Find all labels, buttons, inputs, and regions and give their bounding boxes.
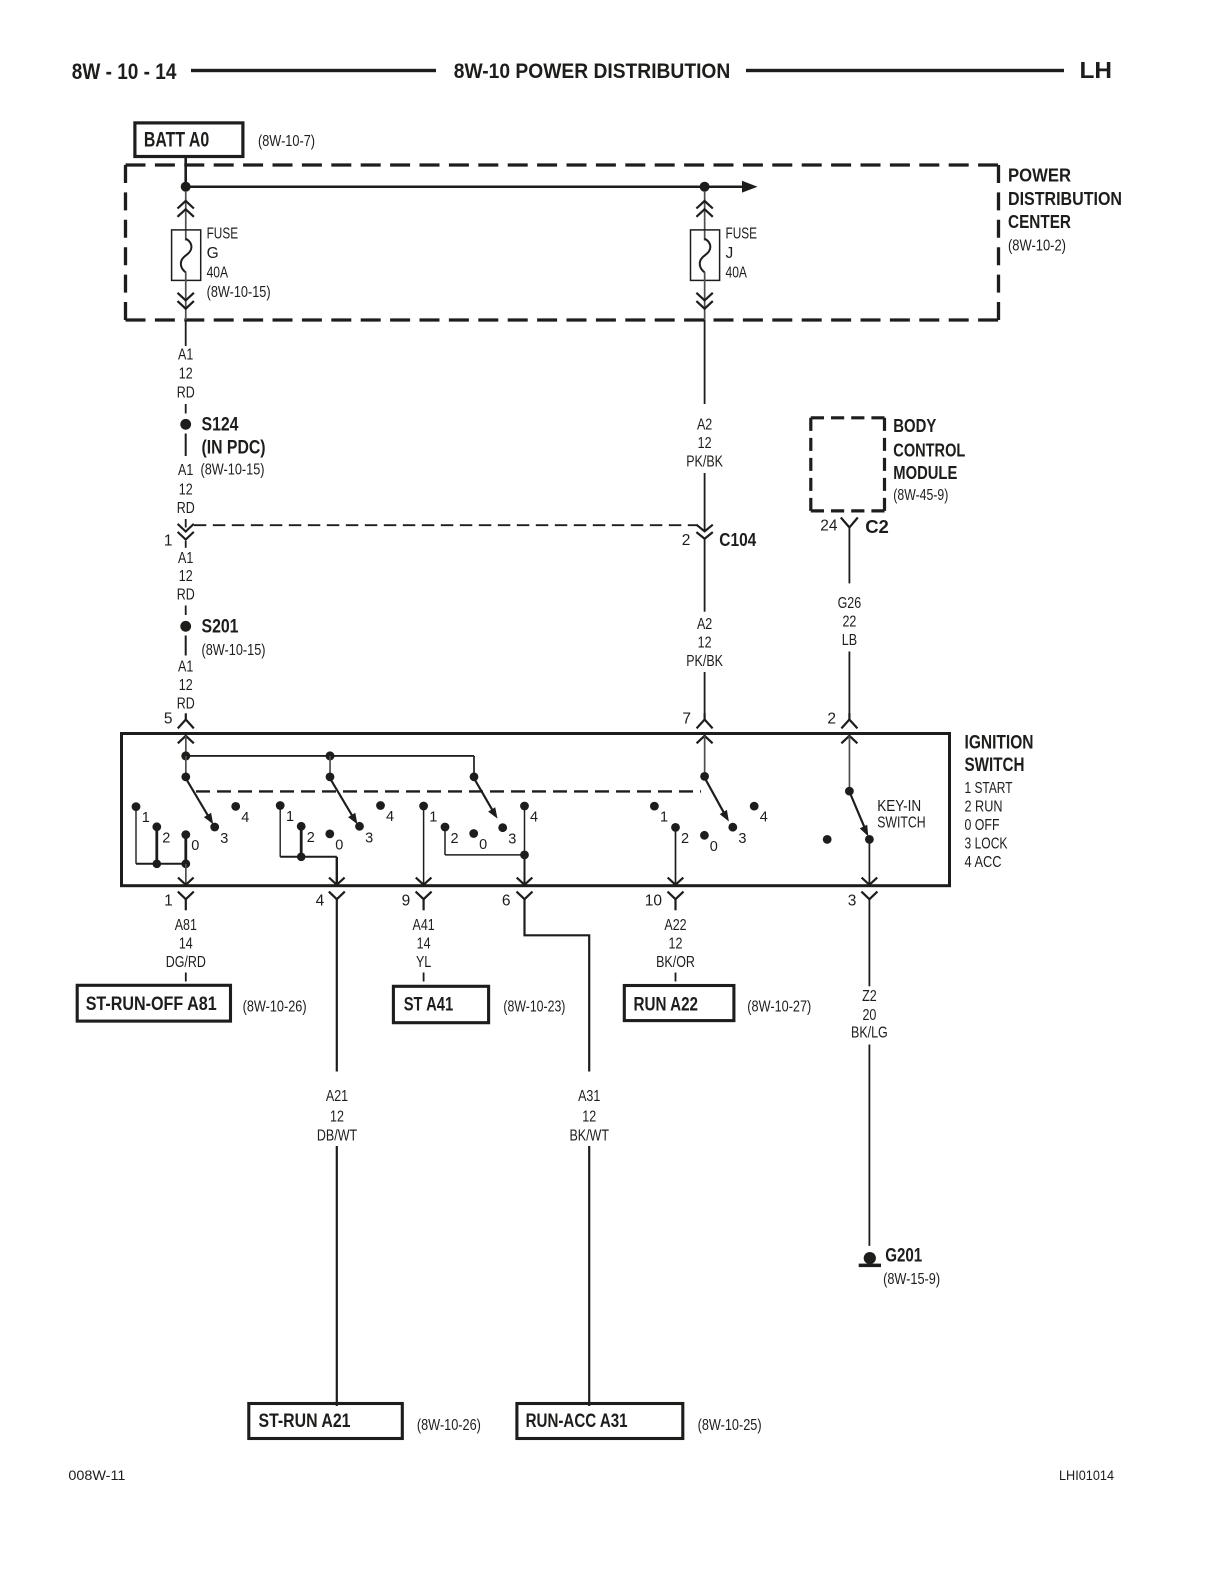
svg-text:BK/WT: BK/WT (569, 1127, 609, 1144)
svg-text:3: 3 (220, 831, 228, 847)
svg-text:J: J (726, 245, 734, 262)
svg-text:12: 12 (669, 935, 683, 952)
wire feed branch to wafer 3 (473, 756, 475, 777)
svg-text:A1: A1 (178, 462, 193, 479)
svg-text:CENTER: CENTER (1008, 211, 1071, 232)
svg-text:G26: G26 (838, 595, 862, 612)
wire Z2 upper (868, 899, 870, 986)
svg-text:(8W-10-2): (8W-10-2) (1008, 238, 1066, 255)
wire A31 lower (588, 1146, 590, 1406)
svg-text:2: 2 (682, 532, 691, 549)
svg-text:A1: A1 (178, 550, 193, 567)
arrowhead at pin 9 inside box (416, 878, 432, 885)
svg-text:1: 1 (286, 809, 294, 825)
arrowhead at pin 1 inside box (178, 878, 194, 885)
svg-text:2: 2 (451, 831, 459, 847)
wire A2 below C104 (704, 539, 706, 612)
svg-text:DB/WT: DB/WT (317, 1127, 357, 1144)
svg-text:12: 12 (330, 1109, 344, 1126)
connector pin 4 exit symbol (329, 892, 345, 900)
wire A2 below PDC (704, 320, 706, 404)
wire bus inside PDC (186, 186, 743, 189)
wire A21 lower (336, 1146, 338, 1406)
wiper arm wafer 1 (187, 780, 213, 824)
svg-text:2 RUN: 2 RUN (965, 799, 1003, 816)
svg-text:4: 4 (241, 810, 249, 826)
wire A21 upper (336, 899, 338, 1071)
wire stub below C104 pin 1 (185, 541, 187, 548)
svg-text:12: 12 (698, 634, 712, 651)
label wire G26 22 LB (838, 595, 862, 649)
wire contact 1 stem to pin 9 (423, 806, 425, 885)
connector chevrons below fuse J (696, 293, 712, 309)
label wire A21 12 DB/WT (317, 1088, 357, 1144)
svg-text:A21: A21 (326, 1088, 348, 1105)
wire dash above S124 (185, 404, 187, 414)
svg-text:LHI01014: LHI01014 (1059, 1467, 1114, 1483)
label IGNITION SWITCH legend (965, 732, 1034, 872)
svg-text:FUSE: FUSE (207, 225, 239, 242)
contact 1 wafer 1 (132, 802, 141, 811)
label wire A1 12 RD (second) (177, 462, 195, 517)
node ST-RUN-OFF A81 box (77, 985, 230, 1021)
svg-text:1: 1 (164, 893, 173, 910)
connector chevron inside box pin 7 (697, 736, 713, 744)
node ST A41 box (393, 986, 488, 1022)
wire dash above ST-RUN-OFF box (185, 973, 187, 982)
svg-text:0: 0 (191, 838, 199, 854)
svg-text:2: 2 (162, 831, 170, 847)
connector C104 pin 2 chevrons (696, 525, 712, 539)
wire BATT A0 to PDC (184, 156, 187, 187)
label wire A41 14 YL (413, 917, 435, 971)
svg-text:12: 12 (179, 677, 193, 694)
connector pin 9 exit symbol (416, 892, 432, 911)
svg-text:ST-RUN A21: ST-RUN A21 (259, 1410, 351, 1432)
svg-text:POWER: POWER (1008, 165, 1071, 186)
svg-text:C2: C2 (865, 516, 889, 537)
svg-text:SWITCH: SWITCH (965, 754, 1025, 776)
svg-text:4: 4 (316, 893, 325, 910)
ignition switch box (122, 734, 950, 886)
connector chevrons above fuse J (696, 201, 712, 217)
svg-text:BODY: BODY (893, 415, 937, 436)
svg-text:CONTROL: CONTROL (893, 439, 965, 460)
splice S124 (180, 419, 191, 430)
wiper pivot dot wafer 3 (470, 772, 479, 781)
svg-text:4: 4 (530, 809, 538, 825)
contact 0 wafer 2 (325, 830, 334, 839)
svg-text:RUN-ACC A31: RUN-ACC A31 (526, 1410, 628, 1432)
svg-text:24: 24 (820, 518, 838, 535)
contact 4 wafer 3 (520, 802, 529, 811)
svg-text:4: 4 (386, 809, 394, 825)
contact right key-in switch (865, 835, 874, 844)
connector C104 pin 1 chevrons (178, 524, 194, 540)
contact 2 wafer 3 (441, 823, 450, 832)
ground G201 symbol (859, 1252, 881, 1267)
svg-text:RD: RD (177, 695, 195, 712)
contact left key-in switch (823, 835, 832, 844)
contact 1 wafer 4 (650, 802, 659, 811)
wire output to pin 6 (524, 855, 526, 885)
contact 1 wafer 3 (419, 802, 428, 811)
svg-text:S201: S201 (202, 616, 239, 638)
svg-text:3: 3 (848, 893, 857, 910)
wire stub above C104 pin 1 (185, 519, 187, 528)
svg-text:A31: A31 (578, 1088, 600, 1105)
svg-text:2: 2 (307, 830, 315, 846)
wire contact 2 stem wafer 1 (155, 827, 158, 864)
wire output to pin 1 (185, 864, 187, 885)
svg-text:BK/OR: BK/OR (656, 954, 695, 971)
svg-text:40A: 40A (726, 264, 748, 281)
arrowhead at pin 4 inside box (329, 878, 345, 885)
connector C104 dashed line (194, 524, 697, 526)
svg-text:(8W-10-26): (8W-10-26) (243, 999, 307, 1016)
wire output link wafer 1 (136, 863, 186, 865)
svg-text:1: 1 (142, 810, 150, 826)
wire contact 2 stem wafer 2 (300, 826, 303, 857)
contact 3 wafer 4 (728, 823, 737, 832)
junction dot at fuse G (181, 182, 191, 192)
contact 4 wafer 1 (231, 802, 240, 811)
label wire A1 12 RD (third) (177, 550, 195, 604)
connector C2 symbol (841, 518, 858, 528)
svg-text:G201: G201 (885, 1244, 922, 1266)
wire A31 jog (525, 899, 590, 1071)
arrow bus continuation (742, 181, 758, 193)
svg-text:10: 10 (645, 893, 663, 910)
svg-text:A2: A2 (697, 616, 712, 633)
svg-text:2: 2 (827, 711, 836, 728)
svg-text:(8W-10-27): (8W-10-27) (747, 999, 811, 1016)
label wire A1 12 RD (first) (177, 347, 195, 402)
contact 3 wafer 1 (210, 823, 219, 832)
wire output to pin 4 (336, 857, 338, 885)
contact 1 wafer 2 (276, 801, 285, 810)
svg-text:8W - 10 - 14: 8W - 10 - 14 (72, 59, 177, 84)
junction dot contact 2 link wafer 1 (153, 860, 162, 869)
connector pin 10 exit symbol (668, 892, 684, 911)
svg-text:LH: LH (1080, 57, 1113, 83)
svg-text:(8W-15-9): (8W-15-9) (883, 1271, 940, 1288)
svg-text:C104: C104 (719, 529, 757, 550)
svg-text:2: 2 (681, 831, 689, 847)
wire pin 5 entry to feed node (185, 736, 187, 756)
wire pin 2 entry to key-in pivot (849, 736, 851, 791)
svg-text:(8W-10-25): (8W-10-25) (698, 1417, 762, 1434)
wire fuse G column upper (185, 191, 187, 241)
svg-text:3 LOCK: 3 LOCK (965, 836, 1009, 853)
contact 4 wafer 2 (376, 801, 385, 810)
label wire A81 14 DG/RD (166, 917, 206, 971)
svg-text:1: 1 (164, 533, 173, 550)
wire A2 to ignition switch (704, 672, 706, 714)
wire below S201 (185, 636, 187, 656)
svg-text:(8W-10-7): (8W-10-7) (258, 133, 315, 150)
svg-text:BK/LG: BK/LG (851, 1025, 888, 1042)
svg-text:(8W-10-15): (8W-10-15) (207, 284, 271, 301)
svg-text:G: G (207, 245, 219, 262)
contact 0 wafer 1 (181, 830, 190, 839)
svg-text:PK/BK: PK/BK (686, 653, 723, 670)
label FUSE G 40A (207, 225, 271, 300)
svg-text:1: 1 (429, 809, 437, 825)
wire below S124 (185, 434, 187, 457)
svg-text:A1: A1 (178, 347, 193, 364)
svg-text:3: 3 (738, 831, 746, 847)
svg-text:S124: S124 (202, 414, 239, 436)
junction dot at fuse J (700, 182, 710, 192)
body control module dashed box (811, 418, 885, 511)
svg-text:RD: RD (177, 586, 195, 603)
svg-text:0: 0 (710, 839, 718, 855)
svg-text:DG/RD: DG/RD (166, 954, 206, 971)
svg-text:ST A41: ST A41 (404, 993, 454, 1015)
label wire A31 12 BK/WT (569, 1088, 609, 1144)
junction dot contact 2 link wafer 2 (297, 853, 306, 862)
svg-text:3: 3 (508, 832, 516, 848)
svg-text:4: 4 (760, 809, 768, 825)
junction dot feed wafer 1 (181, 751, 190, 760)
power distribution center dashed box (126, 165, 999, 320)
wiper arm wafer 3 (475, 780, 498, 819)
connector chevrons below fuse G (178, 293, 194, 309)
svg-text:FUSE: FUSE (726, 225, 758, 242)
svg-text:0: 0 (479, 837, 487, 853)
wire output link wafer 2 (280, 856, 337, 858)
svg-text:20: 20 (862, 1007, 876, 1024)
contact 3 wafer 3 (498, 823, 507, 832)
contact 2 wafer 1 (152, 822, 161, 831)
wire contact 0 stem wafer 1 (184, 835, 187, 864)
contact 2 wafer 4 (671, 823, 680, 832)
wiper arm key-in switch (850, 794, 868, 836)
svg-text:1: 1 (660, 809, 668, 825)
svg-text:PK/BK: PK/BK (686, 454, 723, 471)
contact 3 wafer 2 (355, 822, 364, 831)
svg-text:008W-11: 008W-11 (68, 1467, 125, 1483)
node BATT A0 box (135, 123, 243, 157)
label wire A1 12 RD (fourth) (177, 658, 195, 712)
svg-text:(8W-45-9): (8W-45-9) (893, 487, 948, 504)
fuse J (691, 230, 720, 281)
svg-text:14: 14 (417, 935, 431, 952)
svg-text:(8W-10-26): (8W-10-26) (417, 1417, 481, 1434)
svg-text:9: 9 (402, 893, 411, 910)
wire contact 2 stem wafer 3 (444, 827, 446, 855)
svg-text:0 OFF: 0 OFF (965, 817, 1000, 834)
wiper pivot dot wafer 2 (326, 773, 335, 782)
connector pin 1 exit symbol (178, 892, 194, 911)
wire contact 4 stem wafer 3 (524, 806, 526, 855)
wire contact 1 stem wafer 1 (135, 807, 137, 864)
label BODY CONTROL MODULE (893, 415, 965, 504)
splice S201 (180, 621, 191, 632)
svg-text:5: 5 (164, 711, 173, 728)
wire A2 above C104 (704, 473, 706, 530)
label KEY-IN SWITCH (877, 798, 926, 832)
wiper pivot dot wafer 4 (700, 772, 709, 781)
node RUN A22 box (624, 986, 734, 1021)
wire G26 to ignition switch (849, 652, 851, 714)
svg-text:RD: RD (177, 385, 195, 402)
wire pin 7 entry to wafer 4 pivot (704, 736, 706, 777)
svg-text:8W-10 POWER DISTRIBUTION: 8W-10 POWER DISTRIBUTION (454, 59, 731, 83)
contact 4 wafer 4 (750, 802, 759, 811)
svg-text:RD: RD (177, 500, 195, 517)
arrowhead at pin 6 inside box (517, 878, 533, 885)
svg-text:A22: A22 (664, 917, 686, 934)
svg-text:A1: A1 (178, 658, 193, 675)
wiper pivot dot wafer 1 (181, 773, 190, 782)
svg-text:A41: A41 (413, 917, 435, 934)
contact 0 wafer 3 (469, 829, 478, 838)
junction dot output wafer 3 (520, 851, 529, 860)
svg-text:12: 12 (179, 481, 193, 498)
arrowhead at pin 3 inside box (862, 878, 878, 885)
svg-text:YL: YL (416, 954, 431, 971)
label wire Z2 20 BK/LG (851, 988, 888, 1042)
svg-text:0: 0 (335, 837, 343, 853)
wire dash above RUN A22 box (675, 973, 677, 982)
svg-text:(IN PDC): (IN PDC) (202, 437, 266, 459)
contact 0 wafer 4 (700, 831, 709, 840)
svg-text:Z2: Z2 (862, 988, 877, 1005)
label S201 (202, 616, 266, 659)
connector chevrons above fuse G (178, 201, 194, 217)
wire dash above S201 (185, 606, 187, 616)
wire fuse G column lower (185, 272, 187, 321)
label FUSE J 40A (726, 225, 758, 281)
connector chevron inside box pin 5 (178, 736, 194, 744)
svg-text:IGNITION: IGNITION (965, 732, 1034, 754)
arrowhead at pin 10 inside box (668, 878, 684, 885)
wire A1 below PDC (185, 320, 187, 346)
label S124 (IN PDC) (201, 414, 266, 479)
svg-text:40A: 40A (207, 264, 229, 281)
connector pin 6 exit symbol (517, 892, 533, 900)
label wire A2 12 PK/BK (second) (686, 616, 723, 670)
header rule left (191, 69, 436, 72)
wiper arm wafer 2 (331, 780, 357, 824)
node ST-RUN A21 box (249, 1404, 402, 1439)
header rule right (746, 69, 1064, 72)
junction dot output wafer 1 (181, 859, 190, 868)
ignition switch position dashed line (196, 790, 701, 792)
connector pin 7 entry symbol (697, 713, 713, 728)
label POWER DISTRIBUTION CENTER (1008, 165, 1122, 255)
svg-text:(8W-10-15): (8W-10-15) (202, 642, 266, 659)
wire dash above ST A41 box (423, 973, 425, 982)
wire fuse J column lower (704, 272, 706, 321)
wire feed drop wafer 2 (329, 756, 331, 777)
svg-text:DISTRIBUTION: DISTRIBUTION (1008, 188, 1122, 209)
svg-text:A2: A2 (697, 417, 712, 434)
svg-text:SWITCH: SWITCH (877, 815, 926, 832)
svg-text:RUN A22: RUN A22 (634, 994, 699, 1016)
wire G26 from C2 (849, 527, 851, 583)
svg-text:14: 14 (179, 935, 193, 952)
svg-text:MODULE: MODULE (893, 462, 957, 483)
wire Z2 lower (868, 1045, 870, 1246)
svg-text:12: 12 (179, 568, 193, 585)
connector chevron inside box pin 2 (841, 736, 857, 744)
svg-text:KEY-IN: KEY-IN (877, 798, 921, 815)
svg-text:4 ACC: 4 ACC (965, 854, 1002, 871)
wire output link wafer 3 (445, 854, 525, 856)
connector pin 5 entry symbol (178, 713, 194, 728)
wire key-in contact to pin 3 (868, 839, 870, 884)
wire contact 2 stem to pin 10 (675, 827, 677, 884)
wire internal feed bus (186, 755, 474, 757)
svg-text:12: 12 (698, 435, 712, 452)
wire contact 1 stem wafer 2 (279, 806, 281, 857)
node RUN-ACC A31 box (517, 1404, 683, 1439)
wiper pivot dot key-in switch (845, 787, 854, 796)
wiper arm wafer 4 (706, 780, 729, 822)
svg-text:3: 3 (365, 830, 373, 846)
svg-text:12: 12 (179, 366, 193, 383)
svg-text:A81: A81 (175, 917, 197, 934)
wire fuse J column upper (704, 191, 706, 241)
svg-text:1 START: 1 START (965, 780, 1013, 797)
svg-text:6: 6 (502, 893, 511, 910)
svg-text:BATT A0: BATT A0 (144, 129, 209, 152)
connector pin 2 entry symbol (841, 713, 857, 728)
wire feed drop wafer 1 (185, 756, 187, 777)
label wire A22 12 BK/OR (656, 917, 695, 971)
label G201 (883, 1244, 940, 1288)
svg-text:12: 12 (582, 1109, 596, 1126)
label wire A2 12 PK/BK (first) (686, 417, 723, 471)
svg-text:LB: LB (842, 632, 857, 649)
connector pin 3 exit symbol (861, 892, 877, 900)
junction dot feed wafer 2 (326, 751, 335, 760)
svg-text:ST-RUN-OFF A81: ST-RUN-OFF A81 (86, 993, 217, 1015)
svg-text:(8W-10-15): (8W-10-15) (201, 461, 265, 478)
fuse G (172, 230, 201, 281)
svg-text:(8W-10-23): (8W-10-23) (503, 999, 565, 1016)
svg-text:7: 7 (682, 711, 691, 728)
svg-text:22: 22 (842, 614, 856, 631)
contact 2 wafer 2 (297, 822, 306, 831)
